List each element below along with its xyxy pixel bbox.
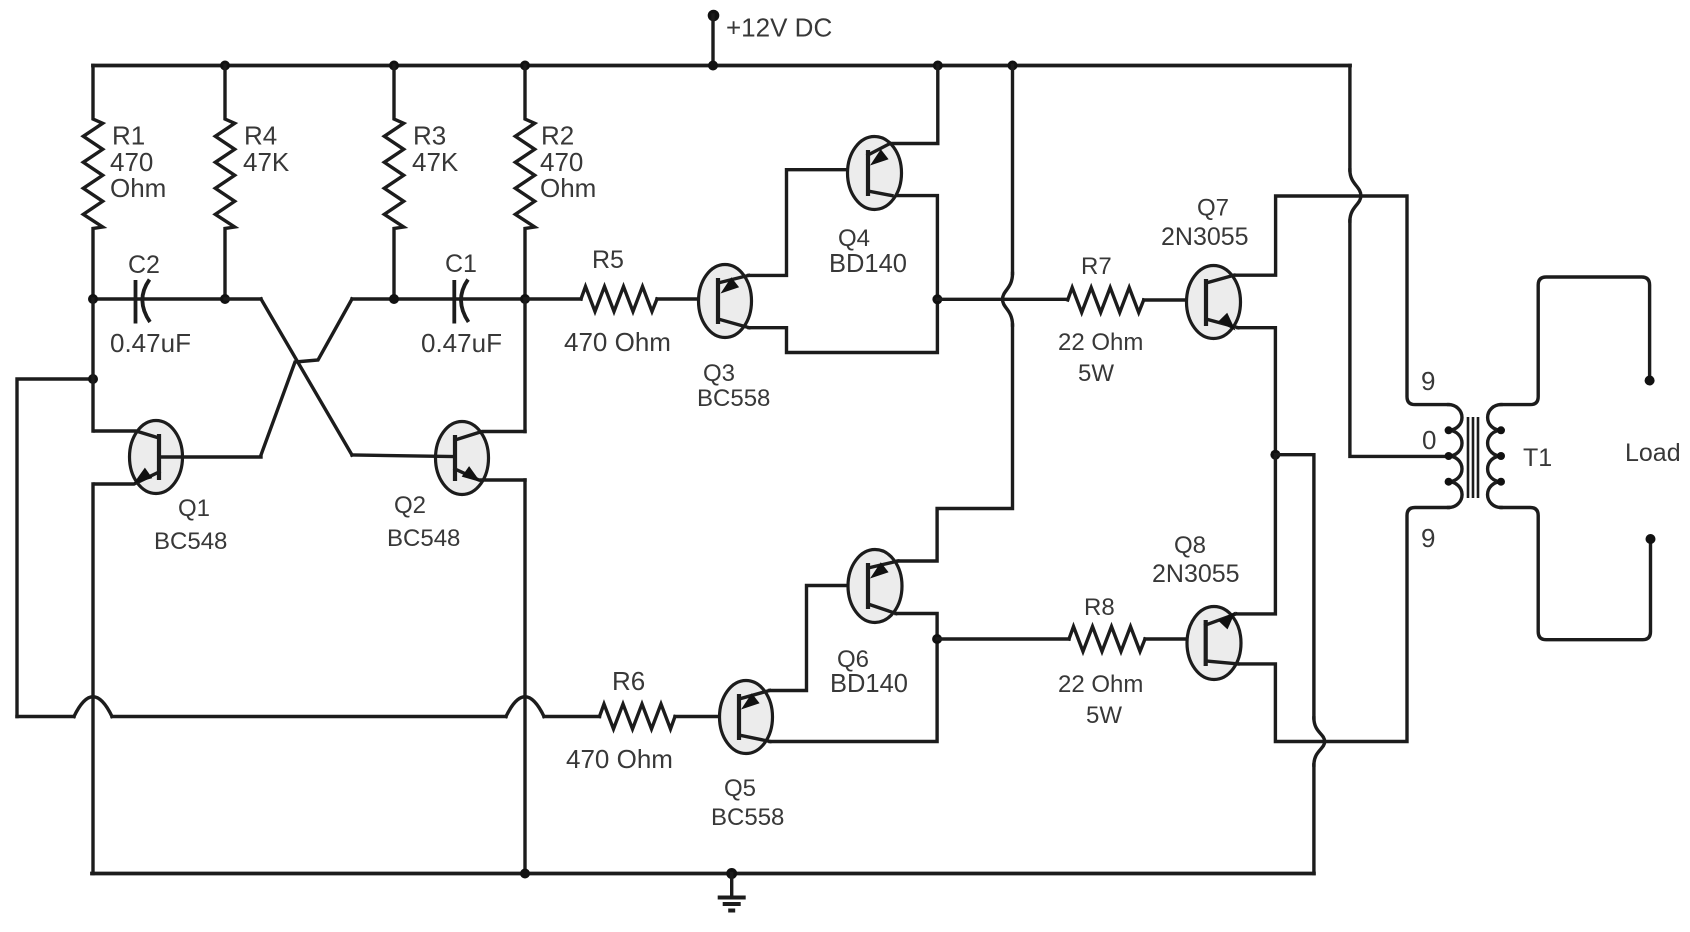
transistor Q4 (BD140 PNP) xyxy=(829,137,907,279)
svg-text:R3: R3 xyxy=(413,121,446,151)
wire: base feed down to Q1 xyxy=(91,299,94,431)
resistor R4 xyxy=(215,66,290,300)
node: Q6 collector / R8 xyxy=(932,634,942,644)
wire: Q7 collector to transformer top xyxy=(1234,196,1449,405)
wire: R6 feed line with hops xyxy=(17,715,74,718)
resistor R7 xyxy=(1058,253,1204,387)
resistor R2 xyxy=(515,66,596,300)
wire: Q3 emitter to Q4 base xyxy=(749,170,869,276)
transistor Q8 (2N3055 NPN) xyxy=(1152,532,1241,680)
wire: Q1 emitter down to bottom rail xyxy=(91,484,94,874)
svg-text:Q5: Q5 xyxy=(724,775,756,802)
svg-text:0: 0 xyxy=(1422,425,1436,455)
svg-text:R2: R2 xyxy=(541,121,574,151)
resistor R1 xyxy=(83,66,166,300)
wire: Q8 emitter up to common node xyxy=(1236,455,1275,614)
svg-text:2N3055: 2N3055 xyxy=(1161,223,1249,251)
svg-text:Q3: Q3 xyxy=(703,360,735,387)
wire: Q4 emitter riser to rail xyxy=(890,66,938,144)
wire: cross-coupling diagonal B with hop (C1 line to Q1 collector) xyxy=(261,299,352,455)
wire: R6 feed line to R6 xyxy=(544,715,600,718)
node on rail at +12V entry xyxy=(708,61,718,71)
svg-text:Ohm: Ohm xyxy=(540,173,596,203)
transformer T1 secondary winding xyxy=(1488,405,1505,508)
wire: Q2 collector riser to C1 node xyxy=(523,299,526,432)
wire: R8 feed from node xyxy=(937,637,1069,640)
node C1/R2 xyxy=(520,294,530,304)
node on rail at R4 xyxy=(220,61,230,71)
svg-text:0.47uF: 0.47uF xyxy=(110,328,191,358)
svg-text:9: 9 xyxy=(1421,366,1435,396)
load top terminal xyxy=(1645,376,1655,386)
wire: Q2 emitter down to bottom rail xyxy=(523,480,526,874)
node C1/R3 xyxy=(389,294,399,304)
node: Q2 emitter on rail xyxy=(520,869,530,879)
wire: node to left outer loop xyxy=(17,379,93,717)
svg-text:22 Ohm: 22 Ohm xyxy=(1058,671,1143,698)
svg-text:BC548: BC548 xyxy=(387,525,460,552)
svg-text:5W: 5W xyxy=(1078,360,1114,387)
wire hop over Q1 emitter drop xyxy=(74,697,112,717)
wire: ground drop lower part to bottom rail xyxy=(1312,765,1315,874)
wire hop: ground drop crossing transformer bottom lead xyxy=(1314,718,1325,765)
transistor Q2 (BC548 NPN) xyxy=(352,422,525,553)
svg-text:Q8: Q8 xyxy=(1174,532,1206,559)
+12V DC supply terminal xyxy=(708,10,833,66)
svg-text:C2: C2 xyxy=(128,251,160,279)
svg-text:470 Ohm: 470 Ohm xyxy=(566,744,673,774)
wire: secondary bottom to load xyxy=(1501,508,1651,640)
svg-text:R1: R1 xyxy=(112,121,145,151)
svg-text:Q7: Q7 xyxy=(1197,195,1229,222)
svg-text:BC558: BC558 xyxy=(697,385,770,412)
svg-text:C1: C1 xyxy=(445,250,477,278)
transformer T1 core xyxy=(1468,417,1478,498)
wire: Q7 emitter down to common node xyxy=(1238,328,1275,455)
wire: center tap from rail with hop xyxy=(1348,66,1351,171)
node at Q1 base feed xyxy=(88,374,98,384)
wire: R4 node to cross-coupling xyxy=(225,297,261,300)
transformer T1 primary winding xyxy=(1445,405,1462,508)
svg-text:BC558: BC558 xyxy=(711,804,784,831)
resistor R3 xyxy=(384,66,459,300)
transistor Q7 (2N3055 NPN) xyxy=(1161,195,1249,339)
resistor R6 xyxy=(566,666,737,774)
svg-text:BC548: BC548 xyxy=(154,528,227,555)
node on rail at R3 xyxy=(389,61,399,71)
svg-text:R5: R5 xyxy=(592,246,624,274)
wire: R6 feed line middle segment xyxy=(112,715,506,718)
svg-text:+12V DC: +12V DC xyxy=(726,13,832,43)
transistor Q3 (BC558 PNP) xyxy=(697,265,770,413)
svg-text:Ohm: Ohm xyxy=(110,173,166,203)
svg-text:R4: R4 xyxy=(244,121,277,151)
node on rail at R2 xyxy=(520,61,530,71)
node: Q4 collector / R7 xyxy=(932,294,942,304)
transistor Q5 (BC558 PNP) xyxy=(711,681,784,832)
svg-text:Q1: Q1 xyxy=(178,495,210,522)
wire: cross-coupling diagonal A (C2 line to Q2 base) xyxy=(261,299,352,455)
svg-text:R8: R8 xyxy=(1084,594,1115,621)
svg-text:5W: 5W xyxy=(1086,702,1122,729)
wire hop: Q6 emitter riser crossing R7 feed xyxy=(1003,274,1013,326)
ground symbol xyxy=(718,874,746,911)
wire: R7 feed from node xyxy=(937,298,1067,301)
node on rail at Q6 emitter riser xyxy=(1008,61,1018,71)
wire hop: center tap drop crossing Q7 collector run xyxy=(1350,170,1361,221)
wire hop over Q2 emitter drop xyxy=(506,697,544,717)
wire: Q6 emitter riser to rail with hop over R7 line xyxy=(898,325,1013,561)
svg-text:47K: 47K xyxy=(412,147,459,177)
svg-text:2N3055: 2N3055 xyxy=(1152,560,1240,588)
svg-text:R6: R6 xyxy=(612,666,645,696)
wire: Q5 emitter to Q6 base xyxy=(770,586,869,691)
capacitor C1 xyxy=(352,250,525,358)
svg-text:Load: Load xyxy=(1625,439,1681,467)
svg-text:BD140: BD140 xyxy=(829,250,907,278)
svg-text:470 Ohm: 470 Ohm xyxy=(564,327,671,357)
svg-text:22 Ohm: 22 Ohm xyxy=(1058,329,1143,356)
svg-text:R7: R7 xyxy=(1081,253,1112,280)
resistor R5 xyxy=(525,246,716,357)
wire: Q8 collector to transformer bottom xyxy=(1238,508,1449,742)
node C2/R4 xyxy=(220,294,230,304)
transistor Q6 (BD140 PNP) xyxy=(830,550,908,699)
wire: Q6 emitter riser upper part to rail xyxy=(1011,66,1014,274)
wire: +12V rail (top) xyxy=(93,64,1350,68)
svg-text:0.47uF: 0.47uF xyxy=(421,328,502,358)
resistor R8 xyxy=(1058,594,1204,729)
svg-text:9: 9 xyxy=(1421,523,1435,553)
svg-text:Q6: Q6 xyxy=(837,646,869,673)
wire: Q3 collector loop to Q4 collector / R7 node xyxy=(749,196,937,353)
svg-text:T1: T1 xyxy=(1523,444,1552,472)
svg-text:Q4: Q4 xyxy=(838,225,870,252)
load bottom terminal xyxy=(1646,534,1656,544)
wire: secondary top to load xyxy=(1501,277,1650,405)
wire: bottom ground rail xyxy=(92,872,1314,876)
wire: center tap drop to transformer center tap xyxy=(1350,221,1449,456)
node: ground tap on rail xyxy=(726,868,737,879)
svg-text:BD140: BD140 xyxy=(830,670,908,698)
node on rail at Q4 emitter riser xyxy=(933,61,943,71)
capacitor C2 xyxy=(93,251,225,358)
node C2/R1 xyxy=(88,294,98,304)
wire: node to ground drop with hop xyxy=(1275,455,1314,718)
wire: Q5 collector to Q6 collector node xyxy=(770,614,937,742)
node: emitters / ground riser xyxy=(1270,450,1280,460)
svg-text:Q2: Q2 xyxy=(394,492,426,519)
transistor Q1 (BC548 NPN) xyxy=(95,421,261,556)
svg-text:47K: 47K xyxy=(243,147,290,177)
